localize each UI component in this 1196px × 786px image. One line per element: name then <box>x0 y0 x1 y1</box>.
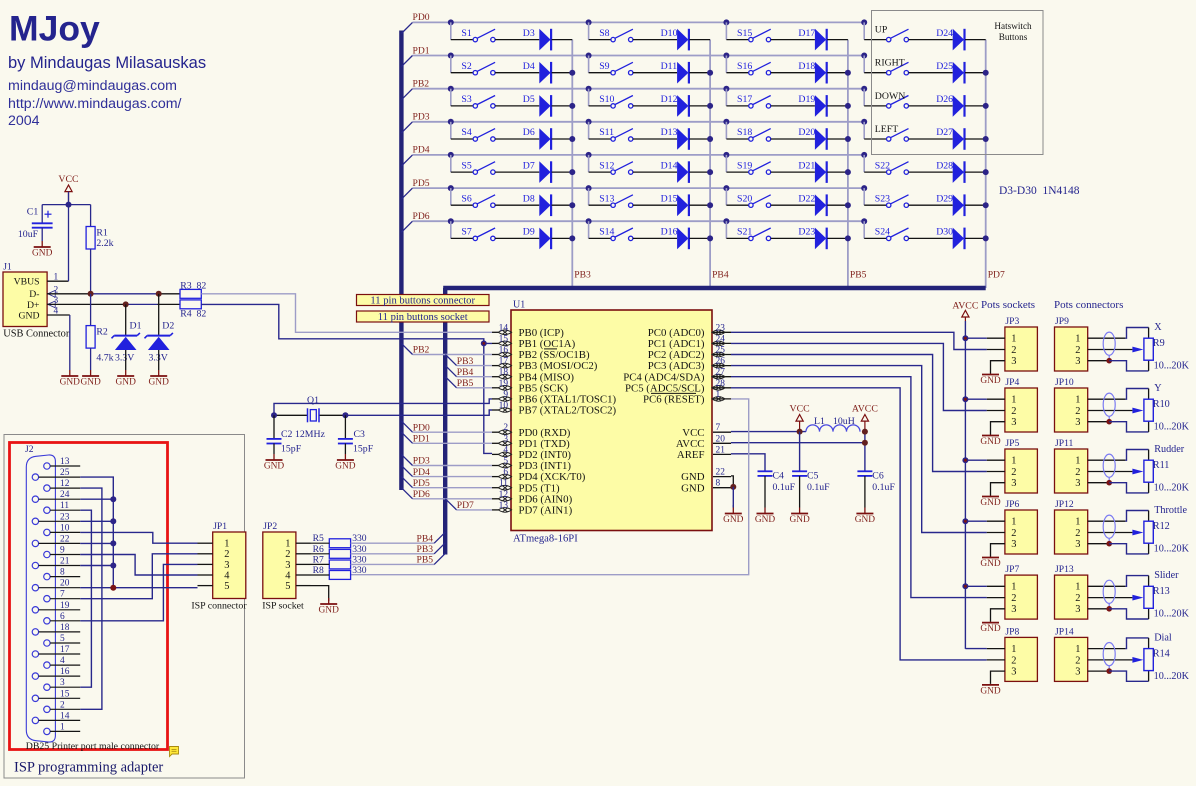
svg-text:PB3: PB3 <box>574 270 591 281</box>
svg-text:PD4: PD4 <box>413 467 430 478</box>
svg-text:22: 22 <box>60 534 70 544</box>
switch S17 <box>749 104 753 108</box>
pin J1.4 stub <box>47 314 70 316</box>
ground D2 <box>158 350 160 370</box>
svg-text:GND: GND <box>335 461 356 471</box>
svg-text:DB25 Printer port male connect: DB25 Printer port male connector <box>26 741 160 752</box>
junction col4 row3 <box>983 103 989 109</box>
resistor R8 <box>329 571 350 580</box>
pin J2.10 lead <box>50 531 80 533</box>
junction crystal right <box>342 412 348 418</box>
junction col4 row4 <box>983 136 989 142</box>
wire cell drop col4 row2 <box>863 56 865 73</box>
svg-text:GND: GND <box>116 377 137 387</box>
svg-text:10...20K: 10...20K <box>1154 361 1190 372</box>
svg-text:2: 2 <box>60 700 65 710</box>
power symbol VCC <box>65 185 72 192</box>
svg-text:C5: C5 <box>807 470 819 481</box>
diode D29 <box>953 194 964 216</box>
wire J2 pin11 to pin3 <box>80 510 91 687</box>
wire cell D15 out <box>689 204 710 206</box>
wire cell col3 row7 left <box>726 237 748 239</box>
power symbol VCC <box>796 415 803 422</box>
wire column PB4 <box>709 40 711 288</box>
switch S13 <box>611 203 615 207</box>
pin U1.26 PC3 stub <box>713 365 731 367</box>
diode D1 zener <box>125 304 127 335</box>
ic U1 body <box>511 310 712 531</box>
diode D7 <box>539 161 550 183</box>
svg-text:GND: GND <box>980 686 1001 696</box>
junction col2 row7 <box>707 235 713 241</box>
svg-text:S5: S5 <box>461 160 471 171</box>
bus entry PD0 <box>401 22 412 33</box>
pin U1.22 GND stub <box>713 476 731 478</box>
connector JP10 body <box>1055 388 1088 432</box>
switch S24 <box>887 236 891 240</box>
wire GND down <box>732 487 734 508</box>
svg-text:13: 13 <box>499 501 509 511</box>
pin J2.5 lead <box>50 642 80 644</box>
pin JP3.3 stub <box>991 361 1005 374</box>
pin JP9.2 stub <box>1088 349 1133 351</box>
pin U1.6 PD4 stub <box>492 476 499 478</box>
svg-text:2: 2 <box>503 423 508 433</box>
diode D4 <box>539 62 550 84</box>
svg-text:GND: GND <box>980 376 1001 386</box>
junction bus col3 row7 <box>723 218 729 224</box>
svg-text:D27: D27 <box>936 127 953 138</box>
junction col2 row2 <box>707 70 713 76</box>
pin JP1.4 stub <box>198 574 213 576</box>
wire D- J1 to dot <box>47 293 91 295</box>
pin JP6.2 stub <box>987 532 1005 534</box>
wire cell col4 row3 mid <box>909 105 953 107</box>
diode D21 <box>815 161 826 183</box>
pin J2.6 lead <box>50 620 80 622</box>
wire cell drop col3 row7 <box>725 221 727 238</box>
pin JP13.3 stub <box>1088 608 1110 610</box>
wire cell drop col2 row6 <box>588 188 590 205</box>
wire cell D22 out <box>827 204 848 206</box>
wire cell drop col2 row4 <box>588 122 590 139</box>
svg-text:VCC: VCC <box>58 174 78 185</box>
connector J1 <box>3 272 47 327</box>
svg-text:D12: D12 <box>661 94 678 105</box>
wire cell drop col1 row7 <box>450 221 452 238</box>
svg-text:S3: S3 <box>461 94 471 105</box>
wire row PD1 <box>413 55 865 57</box>
svg-text:C3: C3 <box>354 429 366 440</box>
pin JP2.3 stub <box>296 563 311 565</box>
svg-text:S1: S1 <box>461 28 471 39</box>
wire PD4 to U1 <box>413 476 492 478</box>
wire cell D13 out <box>689 138 710 140</box>
wire cell col2 row6 left <box>589 204 611 206</box>
svg-text:D24: D24 <box>936 28 953 39</box>
wire cell D4 out <box>552 72 573 74</box>
wire cell col1 row7 mid <box>495 237 539 239</box>
svg-text:PD6: PD6 <box>413 489 430 500</box>
wire cell col2 row3 left <box>589 105 611 107</box>
junction J2 gnd 20 <box>110 585 116 591</box>
bus entry PD4 <box>401 155 412 166</box>
pin JP8.2 stub <box>987 659 1005 661</box>
junction bus col4 row6 <box>861 185 867 191</box>
svg-text:R1: R1 <box>96 228 108 239</box>
junction col3 row6 <box>845 202 851 208</box>
wire cell drop col3 row1 <box>725 22 727 39</box>
junction col3 row4 <box>845 136 851 142</box>
svg-text:1: 1 <box>1011 456 1016 467</box>
svg-text:D21: D21 <box>798 160 815 171</box>
wire cell drop col1 row1 <box>450 22 452 39</box>
wire cell drop col4 row7 <box>863 221 865 238</box>
svg-text:7: 7 <box>716 423 721 433</box>
svg-text:3: 3 <box>1075 478 1080 489</box>
pin J2.17 lead <box>39 653 81 655</box>
wire JP7.1 avcc <box>965 585 986 587</box>
svg-text:X: X <box>1154 322 1162 333</box>
switch LEFT <box>887 137 891 141</box>
wire cell drop col1 row2 <box>450 56 452 73</box>
wire cell col2 row5 mid <box>633 171 677 173</box>
bus horizontal <box>443 286 986 290</box>
svg-text:D7: D7 <box>523 160 535 171</box>
isp adapter frame <box>4 435 245 779</box>
wire D- dot to dot <box>91 293 159 295</box>
svg-text:JP8: JP8 <box>1005 626 1019 637</box>
svg-text:PD0: PD0 <box>413 422 430 433</box>
wire pot bottom lead JP9 <box>1148 360 1150 371</box>
connector JP3 body <box>1005 327 1038 371</box>
pin U1.12 PD6 stub <box>492 498 499 500</box>
svg-text:JP4: JP4 <box>1005 377 1019 388</box>
svg-text:1: 1 <box>1075 517 1080 528</box>
svg-text:2: 2 <box>224 549 229 560</box>
ground JP5 <box>990 496 992 497</box>
wire J2 pin21 gnd <box>80 565 113 567</box>
bus entry PD3 <box>401 122 412 133</box>
wire cell col4 row5 mid <box>909 171 953 173</box>
svg-text:27: 27 <box>716 368 726 378</box>
svg-text:R13: R13 <box>1153 586 1170 597</box>
wire JP9.3 pot bottom <box>1109 361 1148 371</box>
svg-text:8: 8 <box>60 568 65 578</box>
svg-text:VBUS: VBUS <box>14 277 40 288</box>
svg-text:PB4: PB4 <box>712 270 729 281</box>
pin J2.20 lead <box>39 587 81 589</box>
ground D1 <box>125 350 127 370</box>
svg-text:GND: GND <box>980 559 1001 569</box>
junction J2 gnd 24 <box>110 496 116 502</box>
pin JP10.1 stub <box>1088 398 1126 400</box>
svg-text:S12: S12 <box>599 160 614 171</box>
wire pot top lead JP12 <box>1148 511 1150 522</box>
potentiometer R14 wiper <box>1132 657 1143 663</box>
ground C6 <box>864 476 866 508</box>
power symbol AVCC <box>962 310 969 317</box>
cable shield JP12 <box>1103 515 1115 538</box>
pin U1.2 PD0 stub <box>492 431 499 433</box>
ground J1 <box>69 315 71 370</box>
svg-text:PC6 (RESET): PC6 (RESET) <box>643 394 705 406</box>
wire JP13.3 pot bottom <box>1109 609 1148 619</box>
svg-text:1: 1 <box>60 722 65 732</box>
junction bus col4 row2 <box>861 53 867 59</box>
svg-text:D3-D30 1N4148: D3-D30 1N4148 <box>999 185 1080 197</box>
svg-text:D18: D18 <box>798 61 815 72</box>
svg-text:10...20K: 10...20K <box>1154 671 1190 682</box>
svg-text:PB7 (XTAL2/TOSC2): PB7 (XTAL2/TOSC2) <box>519 405 617 417</box>
pin U1.20 AVCC stub <box>713 442 731 444</box>
resistor R2 <box>90 294 92 326</box>
connector JP1 body <box>213 532 246 599</box>
pin JP11.1 stub <box>1088 459 1126 461</box>
pin JP1.1 stub <box>198 542 213 544</box>
wire cell D28 out <box>965 171 986 173</box>
wire cell col1 row4 left <box>451 138 473 140</box>
svg-text:S16: S16 <box>737 61 752 72</box>
junction bus col3 row6 <box>723 185 729 191</box>
wire cell col1 row5 left <box>451 171 473 173</box>
connector JP2 body <box>263 532 296 599</box>
wire cell drop col2 row3 <box>588 89 590 106</box>
junction AVCC L1 <box>862 429 868 435</box>
bus entry PB4 jp2 <box>434 532 445 543</box>
svg-text:S11: S11 <box>599 127 614 138</box>
svg-text:R6: R6 <box>313 544 324 555</box>
svg-text:0.1uF: 0.1uF <box>773 482 796 493</box>
svg-text:S7: S7 <box>461 227 471 238</box>
svg-text:5: 5 <box>60 634 65 644</box>
svg-text:JP7: JP7 <box>1005 564 1019 575</box>
wire cell col3 row1 mid <box>771 39 815 41</box>
pin JP4.3 stub <box>991 422 1005 435</box>
wire cell col4 row7 left <box>864 237 886 239</box>
svg-text:JP12: JP12 <box>1055 499 1074 510</box>
svg-text:2: 2 <box>1011 467 1016 478</box>
svg-text:14: 14 <box>60 711 70 721</box>
wire cell col3 row5 mid <box>771 171 815 173</box>
svg-text:GND: GND <box>789 515 810 525</box>
wire cell D7 out <box>552 171 573 173</box>
resistor R5 <box>329 539 350 548</box>
pin J2.21 circle <box>32 562 38 568</box>
junction bus col1 row2 <box>448 53 454 59</box>
svg-text:19: 19 <box>60 601 70 611</box>
svg-text:12MHz: 12MHz <box>295 429 326 440</box>
pin J2.3 circle <box>44 684 50 690</box>
potentiometer R12 wiper <box>1132 530 1143 536</box>
pin U1.5 PD3 stub <box>492 465 499 467</box>
pin JP7.1 stub <box>987 585 1005 587</box>
switch S3 <box>473 104 477 108</box>
wire column PD7 <box>985 40 987 288</box>
svg-text:21: 21 <box>716 445 726 455</box>
connector JP12 body <box>1055 510 1088 554</box>
svg-text:D26: D26 <box>936 94 953 105</box>
svg-text:5: 5 <box>224 581 229 592</box>
wire pot top lead JP14 <box>1148 638 1150 649</box>
wire cell col2 row1 mid <box>633 39 677 41</box>
svg-text:D8: D8 <box>523 193 535 204</box>
wire cell drop col4 row1 <box>863 22 865 39</box>
wire cell col1 row7 left <box>451 237 473 239</box>
svg-text:3: 3 <box>1075 356 1080 367</box>
wire cell col3 row4 mid <box>771 138 815 140</box>
wire PD3 to U1 <box>413 465 492 467</box>
junction bus col4 row3 <box>861 86 867 92</box>
wire cell col4 row6 left <box>864 204 886 206</box>
svg-text:2: 2 <box>1011 593 1016 604</box>
pin JP8.3 stub <box>991 671 1005 684</box>
wire J2 pin12 to pin2 <box>80 488 102 709</box>
wire JP13.1 pot top <box>1125 576 1148 587</box>
switch S14 <box>611 236 615 240</box>
svg-text:1: 1 <box>1011 582 1016 593</box>
wire JP11.1 pot top <box>1125 450 1148 461</box>
wire cell col2 row2 mid <box>633 72 677 74</box>
svg-text:3: 3 <box>1075 539 1080 550</box>
svg-text:PB2: PB2 <box>413 345 430 356</box>
svg-text:17: 17 <box>60 645 70 655</box>
svg-text:AVCC: AVCC <box>852 403 878 414</box>
wire cell drop col1 row5 <box>450 155 452 172</box>
wire VCC pin7 <box>731 431 806 433</box>
svg-text:R7: R7 <box>313 554 324 565</box>
pin U1.14 PB0 stub <box>492 331 499 333</box>
ground JP4 <box>990 435 992 436</box>
switch S20 <box>749 203 753 207</box>
junction col1 row5 <box>569 169 575 175</box>
pin U1.16 PB2 stub <box>492 354 499 356</box>
wire JP12.3 pot bottom <box>1109 544 1148 554</box>
wire cell drop col3 row6 <box>725 188 727 205</box>
switch S12 <box>611 170 615 174</box>
diode D23 <box>815 228 826 250</box>
cable shield JP13 <box>1103 580 1115 603</box>
pin J2.7 circle <box>44 596 50 602</box>
wire cell col3 row6 left <box>726 204 748 206</box>
bus entry PB2 <box>401 89 412 100</box>
wire row PD4 <box>413 154 865 156</box>
wire cell drop col1 row6 <box>450 188 452 205</box>
svg-text:22: 22 <box>716 468 726 478</box>
svg-text:24: 24 <box>60 490 70 500</box>
wire pot top lead JP13 <box>1148 576 1150 587</box>
note icon <box>170 747 179 757</box>
wire JP5.1 avcc <box>965 459 986 461</box>
svg-text:Buttons: Buttons <box>999 32 1028 42</box>
svg-text:11 pin buttons connector: 11 pin buttons connector <box>370 296 475 307</box>
svg-text:S20: S20 <box>737 193 752 204</box>
wire cell col3 row7 mid <box>771 237 815 239</box>
svg-text:D17: D17 <box>798 28 815 39</box>
svg-text:GND: GND <box>319 605 340 615</box>
wire D- R3 to PB0 <box>201 294 492 333</box>
wire cell col1 row2 left <box>451 72 473 74</box>
pin JP5.3 stub <box>991 483 1005 496</box>
junction AVCC pin20 <box>862 440 868 446</box>
pin J2.13 lead <box>50 465 80 467</box>
wire cell col1 row2 mid <box>495 72 539 74</box>
capacitor C6 <box>857 470 872 472</box>
pin J2.11 circle <box>44 507 50 513</box>
bus entry PD5 <box>401 188 412 199</box>
svg-text:R5: R5 <box>313 533 324 544</box>
bus entry PB2 <box>401 343 412 354</box>
svg-text:D13: D13 <box>661 127 678 138</box>
diode D16 <box>677 228 688 250</box>
wire R1 to D- <box>90 249 92 294</box>
wire cell D8 out <box>552 204 573 206</box>
bus entry PD7 <box>445 499 456 510</box>
module 11 pin buttons connector <box>357 295 490 306</box>
pin JP12.1 stub <box>1088 520 1126 522</box>
svg-text:19: 19 <box>499 379 509 389</box>
svg-text:2: 2 <box>1075 345 1080 356</box>
potentiometer R10 body <box>1144 399 1153 421</box>
wire PC2 to JP5.2 <box>731 355 987 472</box>
bus entry PD1 <box>401 432 412 443</box>
overline SS <box>544 348 557 350</box>
resistor R6 <box>329 549 350 558</box>
wire JP2 PB4 <box>351 542 435 544</box>
wire cell col4 row3 left <box>864 105 886 107</box>
switch S18 <box>749 137 753 141</box>
pin U1.21 AREF stub <box>713 453 731 455</box>
wire pot bottom lead JP10 <box>1148 421 1150 432</box>
svg-text:PB3: PB3 <box>417 544 434 555</box>
svg-text:ISP programming adapter: ISP programming adapter <box>14 760 163 776</box>
svg-text:2: 2 <box>1011 406 1016 417</box>
wire cell col3 row6 mid <box>771 204 815 206</box>
wire cell D20 out <box>827 138 848 140</box>
cable shield JP11 <box>1103 454 1115 477</box>
svg-text:D+: D+ <box>27 300 39 311</box>
svg-text:PB5: PB5 <box>417 555 434 566</box>
svg-text:PD7: PD7 <box>457 500 474 511</box>
pin J2.12 circle <box>44 485 50 491</box>
svg-text:1: 1 <box>1011 395 1016 406</box>
svg-text:R2: R2 <box>96 327 108 338</box>
connector JP7 body <box>1005 575 1038 619</box>
wire cell D11 out <box>689 72 710 74</box>
junction bus col1 row6 <box>448 185 454 191</box>
ground JP6 <box>990 557 992 558</box>
svg-text:11 pin buttons socket: 11 pin buttons socket <box>378 312 468 323</box>
pin J2.23 circle <box>32 518 38 524</box>
svg-text:23: 23 <box>716 323 726 333</box>
svg-text:1: 1 <box>1011 334 1016 345</box>
wire J2 pin22 gnd <box>80 542 113 544</box>
svg-text:11: 11 <box>499 479 508 489</box>
svg-text:D20: D20 <box>798 127 815 138</box>
svg-text:2004: 2004 <box>8 113 40 129</box>
svg-text:PD5: PD5 <box>413 478 430 489</box>
junction bus col4 row7 <box>861 218 867 224</box>
svg-text:21: 21 <box>60 557 70 567</box>
svg-text:3: 3 <box>60 678 65 688</box>
svg-text:J1: J1 <box>3 262 12 273</box>
pin JP2.2 stub <box>296 553 311 555</box>
pin J1.3 stub arrow <box>47 303 55 305</box>
svg-text:S19: S19 <box>737 160 752 171</box>
wire pot top lead JP11 <box>1148 450 1150 461</box>
switch S1 <box>473 37 477 41</box>
connector J2 outline <box>26 455 55 742</box>
